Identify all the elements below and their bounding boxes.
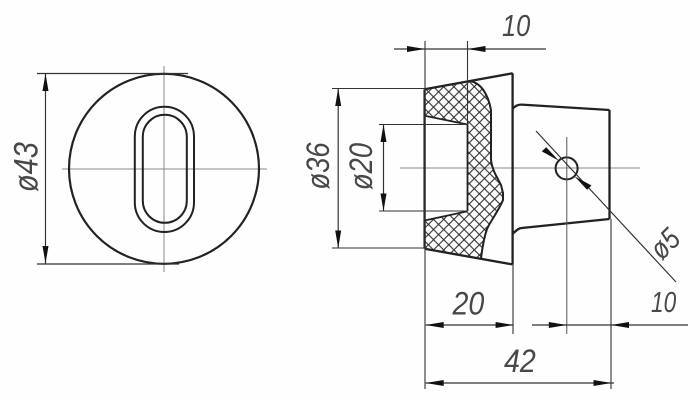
dimension line D20 xyxy=(383,125,385,212)
centerline vertical (left view) xyxy=(163,66,165,272)
extension line boss right face down xyxy=(610,219,612,389)
extension line bottom (D43) xyxy=(37,263,179,265)
arrow D43 top xyxy=(43,74,49,92)
arrow D20 top xyxy=(381,125,387,143)
svg-text:10: 10 xyxy=(651,285,677,318)
svg-text:10: 10 xyxy=(502,9,530,44)
boss top edge xyxy=(513,105,610,110)
dimension line 42 xyxy=(426,382,614,384)
extension line left face (vertical through dims) xyxy=(424,41,426,389)
extension line D36 top xyxy=(332,88,425,90)
arrow D36 bottom xyxy=(335,231,341,249)
flange right face (D43) xyxy=(511,73,513,264)
extension line top (D43) xyxy=(37,73,188,75)
arrow 10b right xyxy=(611,322,629,328)
dimension line 10 (top) xyxy=(394,48,546,50)
frustum left face (D36) xyxy=(423,89,425,249)
frustum top edge xyxy=(425,73,513,89)
boss bottom edge xyxy=(513,219,610,234)
hole D5 xyxy=(556,157,578,179)
dimension line 20 (bottom) xyxy=(426,324,514,326)
frustum bottom edge xyxy=(425,249,513,265)
arrow 10b left xyxy=(549,322,567,328)
recess bottom cone edge xyxy=(425,211,468,220)
svg-text:ø20: ø20 xyxy=(344,143,380,190)
arrow 42 left xyxy=(426,380,444,386)
leader line D5 xyxy=(536,131,676,282)
hole centerline / extension xyxy=(566,137,568,334)
recess top cone edge xyxy=(425,116,468,125)
arrow D43 bottom xyxy=(43,246,49,264)
arrow D36 top xyxy=(335,89,341,107)
dimension line D43 xyxy=(45,74,47,264)
main axis centerline xyxy=(400,167,640,169)
leader arrow lower xyxy=(574,176,591,190)
dimension line D36 xyxy=(337,89,339,249)
arrow 10 top right xyxy=(468,46,486,52)
inner stadium slot xyxy=(143,115,187,223)
svg-text:ø43: ø43 xyxy=(6,142,45,192)
arrow 20 right xyxy=(496,322,514,328)
arrow 42 right xyxy=(594,380,612,386)
extension line D36 bottom xyxy=(332,247,427,249)
leader arrow upper xyxy=(542,147,559,161)
svg-text:ø5: ø5 xyxy=(643,221,688,266)
cavity profile curve xyxy=(470,81,503,259)
boss right face xyxy=(608,110,610,219)
svg-text:42: 42 xyxy=(504,343,536,379)
svg-text:20: 20 xyxy=(452,286,485,322)
svg-text:ø36: ø36 xyxy=(301,142,337,189)
extension line D20 top xyxy=(379,124,468,126)
recess inner wall D20 xyxy=(467,125,469,212)
arrow 20 left xyxy=(426,322,444,328)
outer stadium slot xyxy=(135,107,194,232)
extension line recess wall (top 10 dim) xyxy=(467,41,469,125)
arrow D20 bottom xyxy=(381,194,387,212)
dimension line 10 (bottom right) xyxy=(532,324,688,326)
extension line D20 bottom xyxy=(379,210,468,212)
arrow 10 top left xyxy=(407,46,425,52)
outer circle D43 xyxy=(69,74,259,264)
centerline horizontal (left view) xyxy=(62,168,267,170)
extension line flange face down xyxy=(512,264,514,334)
section hatch region xyxy=(425,81,503,259)
